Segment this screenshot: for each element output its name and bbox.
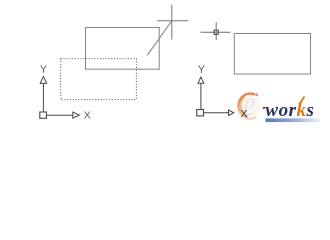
UCS icon right: Y axis shaft	[200, 83, 202, 109]
e-works logo: blue gradient bar	[266, 118, 321, 122]
UCS icon left: Y axis shaft	[42, 83, 44, 112]
svg-text:Y: Y	[40, 63, 47, 75]
solid rectangle (moved position)	[86, 28, 160, 70]
e-works logo: orange swoosh ellipse	[238, 94, 255, 119]
UCS icon left: Y arrowhead	[40, 76, 46, 83]
svg-text:X: X	[84, 110, 91, 122]
crosshair cursor (left) horizontal	[157, 20, 188, 22]
UCS icon left: X axis shaft	[47, 114, 73, 116]
crosshair cursor (left) vertical	[171, 5, 173, 40]
UCS icon left: origin square	[40, 112, 47, 118]
e-works logo: k ascender swash	[300, 97, 304, 104]
dashed rectangle (original position)	[61, 59, 137, 100]
right drawing: result rectangle	[234, 34, 310, 75]
UCS icon right: X axis shaft	[204, 112, 229, 114]
small crosshair with pickbox: vertical	[215, 22, 217, 40]
UCS icon right: Y arrowhead	[198, 77, 204, 83]
svg-text:works: works	[265, 100, 314, 121]
e-works logo: pale interior wash	[240, 95, 261, 118]
UCS icon right: origin square	[197, 110, 204, 116]
pickbox square	[214, 30, 218, 34]
svg-text:X: X	[240, 108, 247, 120]
e-works logo: hyphen	[263, 107, 266, 109]
rubber-band line to cursor	[147, 21, 171, 55]
UCS icon left: X arrowhead	[73, 112, 80, 118]
UCS icon right: X arrowhead	[229, 110, 234, 116]
e-works logo: red ball tip	[255, 93, 258, 96]
small crosshair with pickbox: horizontal	[201, 31, 231, 33]
swoosh thick left brush	[240, 97, 246, 117]
svg-text:Y: Y	[198, 64, 206, 76]
